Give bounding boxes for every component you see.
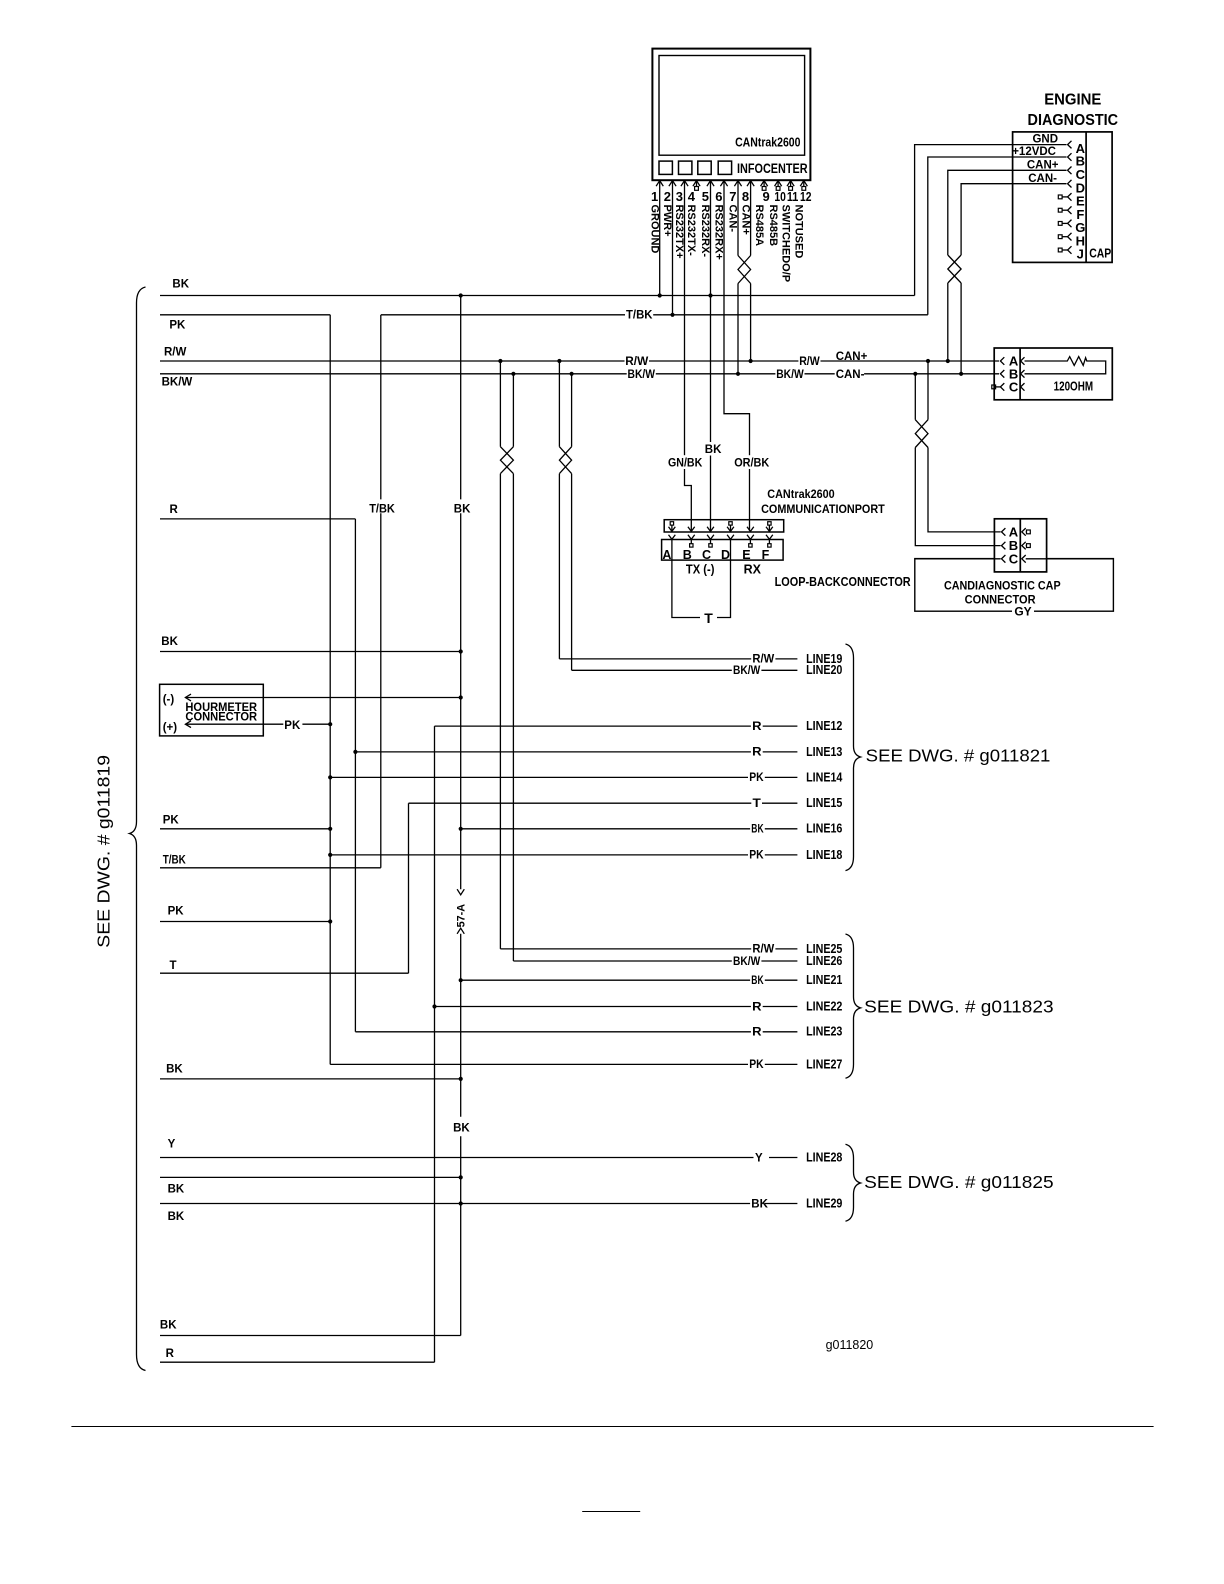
label BK on LINE16 bbox=[750, 822, 765, 835]
svg-text:BK: BK bbox=[705, 444, 722, 456]
junction PK left mid bbox=[328, 827, 332, 831]
comm port A harness arrow bbox=[669, 527, 676, 532]
svg-text:C: C bbox=[1009, 380, 1019, 395]
junction BK mid bbox=[459, 649, 463, 653]
120ohm pin C left chevron bbox=[1000, 383, 1004, 391]
svg-text:RS232RX-: RS232RX- bbox=[699, 205, 711, 258]
svg-text:CANDIAGNOSTIC CAP: CANDIAGNOSTIC CAP bbox=[944, 579, 1061, 593]
comm port D mating arrow bbox=[727, 535, 734, 540]
junction hourmeter plus / PK bbox=[328, 722, 332, 726]
wire LINE14 PK bbox=[330, 776, 797, 778]
wire CAN+ C down bbox=[948, 170, 1067, 255]
svg-text:LINE12: LINE12 bbox=[806, 718, 842, 733]
svg-text:R: R bbox=[752, 1027, 762, 1039]
connector 120OHM box bbox=[994, 348, 1112, 400]
comm port A mating arrow bbox=[669, 535, 676, 540]
engine pin F no-connect bbox=[1058, 208, 1062, 212]
svg-text:PWR+: PWR+ bbox=[661, 205, 673, 237]
brace SEE DWG g011819 bbox=[130, 287, 146, 1371]
junction pin1/BK bbox=[658, 293, 662, 297]
svg-text:PK: PK bbox=[168, 905, 185, 917]
svg-text:Y: Y bbox=[755, 1152, 763, 1164]
wire BK bottom bbox=[160, 1335, 461, 1337]
button 4 bbox=[718, 161, 731, 174]
wire pin7 CAN- down to twist bbox=[737, 181, 739, 256]
svg-text:GY: GY bbox=[1014, 605, 1031, 619]
display screen bbox=[659, 56, 805, 156]
svg-text:BK: BK bbox=[751, 1198, 768, 1210]
label BK/W right bbox=[775, 368, 804, 381]
wire GND A to BK bus bbox=[915, 145, 1067, 296]
wire R vertical 2 bbox=[434, 726, 436, 1362]
pin 4 arrow bbox=[693, 181, 700, 187]
svg-text:R: R bbox=[752, 1001, 762, 1013]
svg-text:BK: BK bbox=[453, 1123, 470, 1135]
engine pin B socket chevron bbox=[1068, 153, 1072, 161]
svg-text:BK: BK bbox=[168, 1211, 185, 1223]
arrow BK to 57-A bbox=[457, 889, 464, 895]
cap connector plug box bbox=[994, 519, 1046, 572]
svg-text:RX: RX bbox=[744, 562, 762, 576]
wire T/BK left bbox=[160, 867, 381, 869]
wire LINE26 BK/W bbox=[513, 960, 797, 962]
svg-text:LINE22: LINE22 bbox=[806, 998, 842, 1013]
connector CAN diagnostic cap label box bbox=[915, 559, 1114, 612]
svg-text:CANtrak2600: CANtrak2600 bbox=[735, 136, 800, 150]
junction pin7/BKW bbox=[736, 372, 740, 376]
svg-text:RS232TX-: RS232TX- bbox=[685, 205, 697, 257]
svg-text:BK: BK bbox=[751, 975, 764, 987]
svg-text:CAN+: CAN+ bbox=[836, 351, 868, 363]
engine pin F socket chevron bbox=[1068, 206, 1072, 214]
junction BK left mid2 bbox=[459, 1077, 463, 1081]
label R/W mid bbox=[625, 355, 650, 368]
comm port B mating arrow bbox=[688, 535, 695, 540]
cap connector pin C left chevron bbox=[1002, 555, 1006, 563]
engine pin J socket chevron bbox=[1068, 246, 1072, 254]
engine pin E no-connect bbox=[1058, 195, 1062, 199]
label BK wire pin5 bbox=[704, 442, 721, 456]
svg-text:4: 4 bbox=[688, 189, 696, 204]
svg-text:J: J bbox=[1077, 247, 1084, 262]
pin 10 arrow bbox=[775, 181, 782, 187]
svg-text:CANtrak2600: CANtrak2600 bbox=[767, 487, 835, 501]
junction LINE16 bbox=[459, 827, 463, 831]
wire pin2 PWR+ down to T/BK bus bbox=[672, 181, 674, 315]
wire LINE12 R bbox=[435, 725, 798, 727]
label PK on LINE14 bbox=[748, 770, 765, 783]
pin 12 no-connect square bbox=[803, 181, 805, 187]
wire twisted pair 2 BK/W bbox=[571, 374, 573, 447]
120ohm pin C inner chevron bbox=[1021, 383, 1025, 391]
svg-text:ENGINE: ENGINE bbox=[1044, 92, 1102, 109]
svg-text:PK: PK bbox=[749, 772, 764, 784]
svg-text:INFOCENTER: INFOCENTER bbox=[737, 161, 808, 176]
junction pair2 BKW bbox=[570, 372, 574, 376]
twisted pair engine CAN bbox=[948, 255, 961, 283]
arrow hourmeter minus bbox=[185, 694, 191, 701]
junction engine CAN+/RW bbox=[946, 359, 950, 363]
wire BK left low1 bbox=[160, 1176, 461, 1178]
svg-text:12: 12 bbox=[800, 189, 812, 204]
arrow BK from 57-A bbox=[457, 928, 464, 934]
button 3 bbox=[698, 161, 711, 174]
svg-text:A: A bbox=[662, 548, 671, 562]
svg-text:R/W: R/W bbox=[752, 944, 774, 956]
svg-text:CAN+: CAN+ bbox=[739, 205, 751, 235]
comm port D harness arrow bbox=[727, 527, 734, 532]
junction LINE18 bbox=[328, 853, 332, 857]
svg-text:1: 1 bbox=[651, 189, 658, 204]
svg-text:PK: PK bbox=[163, 814, 180, 826]
wire LINE25 R/W bbox=[500, 948, 797, 950]
engine pin E socket chevron bbox=[1068, 193, 1072, 201]
comm port B harness arrow bbox=[688, 527, 695, 532]
comm port D harness no-connect bbox=[729, 522, 732, 525]
wire pair1 BKW down to LINE26 bbox=[512, 474, 514, 961]
pin 8 arrow bbox=[747, 181, 754, 187]
svg-text:SWITCHEDO/P: SWITCHEDO/P bbox=[779, 205, 791, 283]
wire LINE13 R bbox=[355, 751, 797, 753]
svg-text:11: 11 bbox=[787, 189, 799, 204]
junction engine CAN-/BKW bbox=[959, 372, 963, 376]
svg-text:LINE21: LINE21 bbox=[806, 972, 842, 987]
wire pin7 CAN- to BK/W bus bbox=[737, 284, 739, 374]
svg-text:LINE26: LINE26 bbox=[806, 953, 842, 968]
cap connector pin A right chevron bbox=[1022, 528, 1026, 536]
pin 9 arrow bbox=[761, 181, 768, 187]
svg-text:BK: BK bbox=[160, 1320, 177, 1332]
wire hourmeter minus bbox=[185, 697, 460, 699]
svg-text:LINE16: LINE16 bbox=[806, 821, 842, 836]
svg-text:E: E bbox=[742, 548, 750, 562]
cap plug divider bbox=[1019, 519, 1021, 572]
svg-text:C: C bbox=[1009, 551, 1019, 566]
cap connector pin B left chevron bbox=[1002, 542, 1006, 550]
wire BK vertical upper bbox=[460, 296, 462, 500]
label BK on LINE29 bbox=[750, 1197, 765, 1210]
svg-text:CONNECTOR: CONNECTOR bbox=[185, 710, 257, 724]
label PK on hourmeter wire bbox=[283, 718, 302, 732]
wire twisted pair 2 R/W bbox=[558, 361, 560, 447]
svg-text:F: F bbox=[762, 548, 770, 562]
junction PK lower left bbox=[328, 919, 332, 923]
svg-text:R: R bbox=[752, 747, 762, 759]
label T on LINE15 bbox=[751, 796, 762, 809]
svg-text:57-A: 57-A bbox=[456, 904, 468, 928]
junction pin5/BK bus bbox=[708, 293, 712, 297]
label PK on LINE18 bbox=[748, 848, 765, 861]
resistor 120OHM bbox=[1025, 357, 1106, 374]
label BK/W on LINE20 bbox=[732, 663, 762, 676]
svg-text:LINE15: LINE15 bbox=[806, 795, 842, 810]
wire LINE20 BK/W bbox=[572, 669, 798, 671]
junction LINE22 bbox=[432, 1004, 436, 1008]
svg-text:T/BK: T/BK bbox=[626, 310, 653, 322]
svg-text:R/W: R/W bbox=[164, 347, 187, 359]
comm port E harness arrow bbox=[747, 527, 754, 532]
120ohm pin B inner chevron bbox=[1021, 370, 1025, 378]
wire T/BK power bus bbox=[381, 314, 928, 316]
svg-text:GROUND: GROUND bbox=[648, 205, 660, 254]
label R/W on LINE19 bbox=[751, 652, 775, 665]
separator rule bbox=[71, 1426, 1153, 1428]
svg-text:BK/W: BK/W bbox=[733, 956, 760, 968]
svg-text:CAN-: CAN- bbox=[836, 369, 865, 381]
svg-text:R/W: R/W bbox=[625, 356, 648, 368]
wire T/BK vertical bbox=[380, 315, 382, 500]
wire LINE21 BK bbox=[461, 979, 798, 981]
comm port A harness no-connect bbox=[670, 522, 673, 525]
svg-text:9: 9 bbox=[762, 189, 769, 204]
wire BK left mid2 bbox=[160, 1078, 461, 1080]
wire CAN- D down bbox=[961, 184, 1066, 255]
wire pin1 GROUND down to BK bus bbox=[659, 181, 661, 296]
svg-text:B: B bbox=[683, 548, 692, 562]
120ohm pin B left chevron bbox=[1000, 370, 1004, 378]
label GN/BK bbox=[667, 455, 704, 469]
wire BK/W CAN- bus bbox=[160, 373, 999, 375]
wire to cap A pin bbox=[928, 448, 1001, 532]
wire LINE15 T bbox=[409, 802, 798, 804]
svg-text:GND: GND bbox=[1032, 134, 1058, 146]
svg-text:BK: BK bbox=[172, 279, 189, 291]
comm loop-back E no-connect bbox=[749, 540, 751, 544]
connector ENGINE DIAGNOSTIC box bbox=[1013, 132, 1113, 263]
svg-text:BK: BK bbox=[161, 636, 178, 648]
pin 7 arrow bbox=[734, 181, 741, 187]
wire cap box top-left segment bbox=[915, 558, 1001, 560]
wire Y to LINE28 bbox=[160, 1157, 797, 1159]
svg-text:R: R bbox=[166, 1348, 175, 1360]
svg-text:Y: Y bbox=[168, 1138, 176, 1150]
svg-text:LINE23: LINE23 bbox=[806, 1024, 842, 1039]
button 1 bbox=[659, 161, 672, 174]
svg-text:RS232TX+: RS232TX+ bbox=[673, 205, 685, 259]
wire LINE19 R/W bbox=[559, 658, 797, 660]
comm port F mating arrow bbox=[766, 535, 773, 540]
engine pin J no-connect bbox=[1058, 248, 1062, 252]
junction BK bus bbox=[459, 293, 463, 297]
svg-text:PK: PK bbox=[169, 320, 186, 332]
wire PK lower left bbox=[160, 921, 330, 923]
svg-text:BK/W: BK/W bbox=[733, 665, 760, 677]
loop-back jumper A to D bbox=[672, 540, 731, 618]
label R on LINE23 bbox=[751, 1025, 763, 1038]
label R on LINE13 bbox=[751, 745, 763, 758]
svg-text:BK: BK bbox=[168, 1184, 185, 1196]
wire pin8 CAN+ down to twist bbox=[750, 181, 752, 256]
svg-text:T/BK: T/BK bbox=[163, 855, 187, 867]
junction hourmeter minus / BK bbox=[459, 695, 463, 699]
twisted pair 1 bbox=[500, 447, 513, 474]
connector comm port harness box bbox=[664, 520, 784, 532]
junction pair2 RW bbox=[557, 359, 561, 363]
junction pin2/T-BK bbox=[670, 313, 674, 317]
pin 4 no-connect square bbox=[696, 181, 698, 187]
svg-text:GN/BK: GN/BK bbox=[668, 457, 703, 469]
engine connector divider bbox=[1085, 132, 1087, 263]
wire pin5 RS232RX- BK down to comm port C bbox=[710, 181, 712, 531]
svg-text:R: R bbox=[170, 504, 179, 516]
engine pin D socket chevron bbox=[1068, 180, 1072, 188]
svg-text:SEE DWG. # g011825: SEE DWG. # g011825 bbox=[864, 1172, 1053, 1192]
svg-text:(-): (-) bbox=[163, 694, 175, 706]
svg-text:3: 3 bbox=[676, 189, 683, 204]
svg-text:BK/W: BK/W bbox=[776, 369, 804, 381]
120ohm divider bbox=[1019, 348, 1021, 400]
cap connector pin C right chevron bbox=[1022, 555, 1026, 563]
junction LINE13 bbox=[353, 750, 357, 754]
svg-text:LINE29: LINE29 bbox=[806, 1195, 842, 1210]
svg-text:RS232RX+: RS232RX+ bbox=[713, 205, 725, 260]
svg-text:2: 2 bbox=[664, 189, 671, 204]
junction LINE21 bbox=[459, 978, 463, 982]
svg-text:10: 10 bbox=[774, 189, 786, 204]
engine pin G no-connect bbox=[1058, 222, 1062, 226]
wire twisted pair 1 R/W bbox=[499, 361, 501, 447]
svg-text:OR/BK: OR/BK bbox=[734, 457, 770, 469]
label BK/W on LINE26 bbox=[732, 954, 762, 967]
svg-text:6: 6 bbox=[715, 189, 722, 204]
svg-text:BK: BK bbox=[454, 503, 471, 515]
label GY bbox=[1012, 605, 1034, 617]
svg-text:CAN-: CAN- bbox=[727, 205, 739, 233]
wire PK vertical bbox=[329, 315, 331, 1065]
label OR/BK bbox=[733, 455, 771, 469]
pin 6 arrow bbox=[720, 181, 727, 187]
wire BK mid to hourmeter area bbox=[160, 651, 461, 653]
twisted pair 2 bbox=[559, 447, 571, 474]
svg-text:BK/W: BK/W bbox=[162, 376, 193, 388]
wire LINE18 PK bbox=[330, 854, 797, 856]
wire pair2 RW down to LINE19 bbox=[558, 474, 560, 659]
svg-text:BK: BK bbox=[751, 824, 764, 836]
engine pin A socket chevron bbox=[1068, 141, 1072, 149]
brace SEE DWG g011821 bbox=[846, 644, 861, 871]
wire pin6 RS232RX+ OR/BK down with jog to comm port E bbox=[724, 181, 750, 531]
svg-text:R: R bbox=[752, 721, 762, 733]
svg-text:BK/W: BK/W bbox=[628, 369, 656, 381]
label Y on LINE28 bbox=[754, 1151, 770, 1164]
comm port C harness arrow bbox=[707, 527, 714, 532]
svg-text:TX (-): TX (-) bbox=[686, 563, 715, 577]
engine pin G socket chevron bbox=[1068, 220, 1072, 228]
wire R left bbox=[160, 518, 355, 520]
comm port C mating arrow bbox=[707, 535, 714, 540]
svg-text:LINE18: LINE18 bbox=[806, 847, 842, 862]
120ohm pin A inner chevron bbox=[1021, 357, 1025, 365]
wire LINE23 R bbox=[355, 1031, 797, 1033]
label R/W on LINE25 bbox=[751, 942, 775, 955]
connector loop-back box bbox=[662, 540, 784, 561]
label R/W right bbox=[798, 355, 820, 368]
svg-text:NOTUSED: NOTUSED bbox=[793, 205, 805, 259]
wire LINE27 PK bbox=[330, 1063, 797, 1065]
label R on LINE22 bbox=[751, 1000, 763, 1013]
pin 12 arrow bbox=[800, 181, 807, 187]
comm loop-back C no-connect bbox=[710, 540, 712, 544]
wire pin8 CAN+ to R/W bus bbox=[750, 284, 752, 362]
svg-text:RS485A: RS485A bbox=[753, 205, 765, 247]
svg-text:C: C bbox=[702, 548, 711, 562]
svg-text:T: T bbox=[704, 610, 713, 626]
junction pair1 BKW bbox=[511, 372, 515, 376]
svg-text:SEE DWG. # g011821: SEE DWG. # g011821 bbox=[866, 746, 1051, 766]
wire PK left mid bbox=[160, 828, 330, 830]
svg-text:7: 7 bbox=[729, 189, 736, 204]
svg-text:T/BK: T/BK bbox=[369, 503, 395, 515]
junction LINE14 bbox=[328, 775, 332, 779]
brace SEE DWG g011825 bbox=[846, 1144, 861, 1221]
wire pair1 RW down to LINE25 bbox=[499, 474, 501, 949]
svg-text:R/W: R/W bbox=[799, 356, 820, 368]
cap connector pin A left chevron bbox=[1002, 528, 1006, 536]
cap connector pin B right chevron bbox=[1022, 542, 1026, 550]
label R on LINE12 bbox=[751, 719, 763, 732]
wire pin3 RS232TX+ GN/BK down with jog to comm port B bbox=[685, 181, 692, 531]
button 2 bbox=[679, 161, 692, 174]
wire engine CAN+ to R/W bus bbox=[947, 283, 949, 361]
wire BK ground bus bbox=[160, 295, 915, 297]
wire cap pin C to box corner bbox=[1026, 558, 1114, 560]
svg-text:5: 5 bbox=[702, 189, 709, 204]
pin 11 arrow bbox=[787, 181, 794, 187]
wire R/W CAN+ bus bbox=[160, 360, 999, 362]
wire R vertical 1 bbox=[354, 519, 356, 1032]
junction pair1 RW bbox=[498, 359, 502, 363]
120ohm pin A left chevron bbox=[1000, 357, 1004, 365]
wire CAN+ to cap A bbox=[927, 361, 929, 420]
svg-text:T: T bbox=[170, 960, 177, 972]
pin 2 arrow bbox=[669, 181, 676, 187]
wire T vertical bbox=[408, 803, 410, 973]
wire pair2 BKW down to LINE20 bbox=[571, 474, 573, 671]
pin 1 arrow bbox=[656, 181, 663, 187]
connector HOURMETER box bbox=[160, 684, 264, 736]
engine pin H no-connect bbox=[1058, 235, 1062, 239]
svg-text:COMMUNICATIONPORT: COMMUNICATIONPORT bbox=[761, 502, 885, 516]
engine pin H socket chevron bbox=[1068, 233, 1072, 241]
wire PK left bbox=[160, 314, 330, 316]
label CAN- bbox=[835, 367, 864, 380]
comm loop-back F no-connect bbox=[768, 540, 770, 544]
svg-text:SEE DWG. # g011819: SEE DWG. # g011819 bbox=[94, 755, 114, 948]
wire hourmeter plus bbox=[185, 723, 330, 725]
wire CAN- to cap B bbox=[914, 374, 916, 420]
wire LINE16 BK bbox=[461, 828, 798, 830]
svg-text:LOOP-BACKCONNECTOR: LOOP-BACKCONNECTOR bbox=[775, 575, 911, 589]
svg-text:LINE14: LINE14 bbox=[806, 769, 843, 784]
pin 9 no-connect square bbox=[763, 181, 765, 187]
junction LINE29 / BK vertical bbox=[459, 1201, 463, 1205]
svg-text:PK: PK bbox=[749, 850, 764, 862]
svg-text:PK: PK bbox=[749, 1059, 764, 1071]
svg-text:LINE13: LINE13 bbox=[806, 744, 842, 759]
arrow hourmeter plus bbox=[185, 721, 191, 728]
svg-text:PK: PK bbox=[284, 720, 301, 732]
wire +12VDC B to T/BK bus bbox=[928, 157, 1067, 315]
svg-text:CAP: CAP bbox=[1089, 246, 1111, 261]
cap pin A no-connect bbox=[1025, 531, 1028, 533]
comm port F harness no-connect bbox=[768, 522, 771, 525]
junction BK left low1 bbox=[459, 1175, 463, 1179]
cap pin B no-connect bbox=[1025, 545, 1028, 547]
label BK/W mid bbox=[627, 368, 656, 381]
svg-text:g011820: g011820 bbox=[826, 1337, 874, 1352]
junction pin8/RW bbox=[749, 359, 753, 363]
wire to cap B pin bbox=[915, 448, 1000, 546]
